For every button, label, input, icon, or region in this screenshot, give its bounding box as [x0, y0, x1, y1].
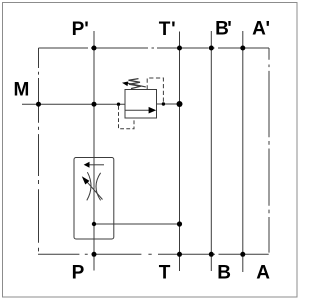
svg-text:P: P	[72, 19, 85, 40]
svg-text:A: A	[256, 263, 270, 284]
svg-text:': '	[266, 19, 271, 40]
svg-text:': '	[171, 19, 176, 40]
svg-text:T: T	[159, 262, 171, 283]
svg-text:B: B	[217, 263, 231, 284]
svg-text:A: A	[252, 19, 266, 40]
svg-text:': '	[227, 19, 232, 40]
svg-text:M: M	[14, 79, 30, 100]
svg-text:T: T	[159, 19, 171, 40]
svg-text:': '	[84, 19, 89, 40]
svg-text:P: P	[72, 262, 85, 283]
